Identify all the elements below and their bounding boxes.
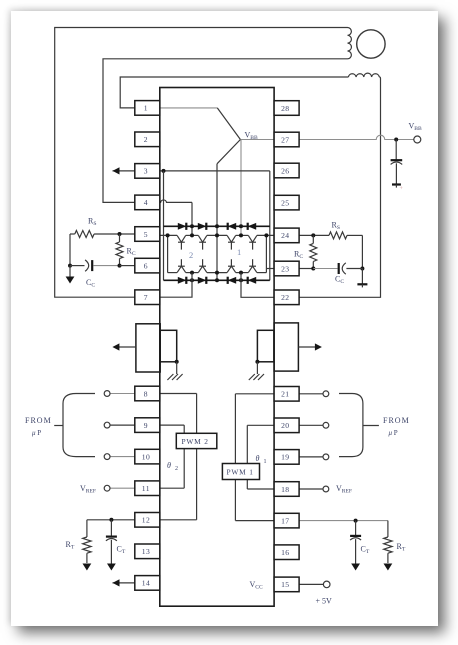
wire terminal pin8 — [110, 393, 135, 395]
svg-text:+ 5V: + 5V — [316, 597, 333, 606]
terminal circle pin18 — [323, 486, 329, 492]
inductor winding L2 (horizontal coil) — [348, 73, 379, 77]
svg-text:1: 1 — [237, 247, 241, 257]
Cc right straight plate — [338, 263, 340, 274]
resistor RT right — [387, 521, 389, 537]
wire pin12 internal — [160, 519, 197, 521]
resistor Rs right — [329, 232, 347, 239]
terminal circle pin20 — [323, 422, 329, 428]
svg-text:1: 1 — [264, 459, 267, 465]
wire diagonal VBB to center rail — [217, 140, 240, 164]
clamp diode row top — [164, 225, 270, 227]
svg-text:RC: RC — [127, 247, 136, 258]
wire terminal pin11 — [110, 487, 135, 489]
pin 27 — [274, 132, 299, 147]
pin 3 — [135, 164, 160, 179]
arrow down (left Cc ground) — [66, 277, 75, 284]
svg-text:2: 2 — [189, 250, 193, 260]
wire to ground hatch right — [256, 362, 258, 374]
ground bar right — [357, 283, 367, 285]
svg-text:13: 13 — [142, 547, 150, 556]
svg-text:9: 9 — [144, 421, 148, 430]
arrow out left — [116, 346, 136, 348]
diode D1 — [178, 223, 187, 230]
pin 22 — [274, 290, 299, 305]
ground bar under VBB cap — [392, 183, 401, 185]
wire pin27 external to VBB terminal with hop — [299, 135, 414, 139]
svg-text:12: 12 — [142, 516, 150, 525]
svg-text:3: 3 — [144, 167, 148, 176]
wire Rs right vertical — [361, 235, 363, 268]
wire terminal pin9 — [110, 424, 135, 426]
inductor winding L1 (vertical coil) — [348, 28, 352, 59]
pin 8 — [135, 386, 160, 401]
wire pin14 arrow — [113, 582, 135, 584]
svg-text:RS: RS — [332, 221, 340, 232]
wire pin17 external (gray) — [299, 520, 388, 522]
junction VBB cap — [394, 138, 398, 142]
bridge 1 right rail — [265, 235, 267, 272]
brace FROM uP right — [339, 394, 363, 457]
IC body outline — [160, 88, 274, 607]
svg-text:25: 25 — [281, 198, 289, 207]
junction CT right — [354, 519, 358, 523]
svg-text:11: 11 — [142, 484, 150, 493]
pin 23 — [274, 261, 299, 276]
wire pin15 to +5V — [299, 583, 323, 585]
svg-text:22: 22 — [281, 293, 289, 302]
pin 6 — [135, 258, 160, 273]
svg-text:CT: CT — [361, 545, 370, 556]
wire pin23 external — [299, 268, 313, 270]
svg-text:18: 18 — [281, 485, 289, 494]
wire terminal pin20 — [299, 424, 323, 426]
svg-text:μ P: μ P — [389, 429, 398, 437]
terminal circle pin11 — [104, 485, 110, 491]
diode D6 — [198, 277, 207, 284]
svg-text:VCC: VCC — [250, 580, 264, 591]
capacitor at VBB: wire top — [395, 140, 397, 161]
wire Rs left vertical — [69, 234, 71, 266]
resistor Rc left — [116, 242, 123, 259]
svg-text:15: 15 — [281, 580, 289, 589]
svg-text:19: 19 — [281, 453, 289, 462]
terminal circle pin8 — [104, 391, 110, 397]
svg-text:CC: CC — [335, 275, 344, 286]
capacitor Cc left: wire — [70, 265, 85, 267]
wire vertical (gray) down to bridge 1 upper node — [240, 140, 242, 236]
transistor lower cx=252.6 — [248, 266, 257, 272]
capacitor CT right — [355, 521, 357, 536]
wire to ground arrow — [69, 266, 71, 278]
junction dots on diode rows — [190, 224, 194, 228]
motor circle — [357, 30, 385, 58]
wire coil2 right end down to pin22 — [299, 77, 380, 297]
pin 24 — [274, 228, 299, 243]
capacitor CT left — [110, 520, 112, 537]
arrow pin3 — [113, 167, 120, 174]
resistor RT left — [86, 520, 88, 537]
wire Cc right — [346, 268, 362, 270]
wire pin27 VBB internal (gray) — [240, 139, 274, 141]
wire pin8 internal — [160, 393, 197, 395]
wire PWM1 inner vertical — [246, 425, 248, 489]
wire Cc to pin6 node (gray) — [94, 265, 120, 267]
svg-text:PWM 2: PWM 2 — [182, 437, 209, 446]
wire pin17 internal — [235, 520, 274, 522]
brace FROM uP left — [63, 394, 95, 457]
svg-text:6: 6 — [144, 261, 148, 270]
terminal circle pin19 — [323, 454, 329, 460]
pin 15 — [274, 577, 299, 592]
junction pin6 — [118, 264, 122, 268]
svg-text:CT: CT — [117, 545, 126, 556]
right sense block box A — [274, 323, 298, 371]
svg-text:VREF: VREF — [336, 484, 352, 495]
wire PWM1 outer vertical — [234, 394, 236, 521]
pin 20 — [274, 418, 299, 433]
left inner box B — [160, 330, 177, 362]
terminal +5V — [323, 581, 330, 588]
wire pin23 to Cc (gray) — [313, 268, 337, 270]
ground hatch right — [249, 374, 255, 380]
transistor lower cx=231.4 — [227, 266, 236, 272]
wire PWM2 inner vertical — [183, 425, 185, 488]
wire pin6 external — [120, 265, 135, 267]
pin 26 — [274, 163, 299, 178]
svg-text:17: 17 — [281, 516, 289, 525]
resistor Rc right — [310, 243, 317, 261]
bridge lower rail segments — [168, 272, 178, 274]
pin 17 — [274, 513, 299, 528]
svg-text:VBB: VBB — [245, 131, 259, 142]
pin 28 — [274, 101, 299, 116]
wire pin7 outer loop left — [55, 28, 348, 298]
transistor lower cx=181.4 — [177, 266, 186, 272]
pin 9 — [135, 418, 160, 433]
bridge upper rail segments (pin5/pin24 row) — [160, 234, 177, 236]
svg-text:24: 24 — [281, 231, 289, 240]
junction Cc right — [360, 267, 364, 271]
diode D4 — [248, 223, 257, 230]
wire coil1 to pin4 loop — [103, 59, 348, 203]
pin 25 — [274, 195, 299, 210]
capacitor wire bottom — [395, 163, 397, 184]
svg-text:10: 10 — [142, 452, 150, 461]
diode D3 — [228, 223, 237, 230]
wire pin4 down to bridge 2 upper node — [191, 202, 193, 235]
diode D8 — [248, 277, 257, 284]
wire PWM2 outer vertical — [196, 394, 198, 520]
pin 12 — [135, 513, 160, 528]
wire pin3 arrow out — [113, 170, 135, 172]
terminal VBB — [414, 136, 421, 143]
svg-text:26: 26 — [281, 166, 289, 175]
resistor Rs left — [75, 231, 94, 238]
svg-text:RS: RS — [88, 217, 96, 228]
junction pin23 — [311, 267, 315, 271]
pin 5 — [135, 227, 160, 242]
diode D5 — [178, 277, 187, 284]
wire pin12 external — [87, 519, 135, 521]
wire pin11 internal — [160, 487, 184, 489]
wire pin3 internal top rail — [160, 170, 270, 172]
svg-text:VBB: VBB — [409, 122, 423, 133]
junction Cc left — [68, 264, 72, 268]
wire bridge1 bottom node to pin22 — [241, 273, 274, 298]
junction pin24/Rc — [311, 233, 315, 237]
transistor upper cx=202.6 — [198, 235, 207, 242]
pin 16 — [274, 545, 299, 560]
svg-text:21: 21 — [281, 390, 289, 399]
Cc right curved plate — [342, 263, 346, 274]
wire pin20 internal — [247, 424, 274, 426]
wire clamp right vertical — [269, 171, 271, 280]
svg-text:2: 2 — [144, 135, 148, 144]
Cc left curved plate — [85, 260, 89, 271]
wire center clamp rail vertical — [216, 164, 218, 280]
svg-text:20: 20 — [281, 421, 289, 430]
pin 2 — [135, 132, 160, 147]
svg-text:RT: RT — [397, 542, 406, 553]
wire bridge2 bottom node to pin7 — [160, 273, 192, 298]
pin 1 — [135, 101, 160, 116]
clamp diode row bottom — [164, 279, 270, 281]
svg-text:23: 23 — [281, 264, 289, 273]
pin 18 — [274, 482, 299, 497]
Cc left straight plate — [91, 260, 93, 271]
block PWM 1 — [222, 464, 259, 480]
transistor lower cx=202.6 — [198, 266, 207, 272]
wire pin23 internal — [266, 268, 274, 270]
diode D7 — [228, 277, 237, 284]
svg-text:2: 2 — [175, 466, 178, 472]
svg-text:FROM: FROM — [25, 416, 52, 425]
svg-text:θ: θ — [256, 454, 260, 463]
wire pin24 external — [299, 234, 329, 236]
wire pin4 internal with hop — [160, 200, 192, 202]
pin 11 — [135, 481, 160, 496]
wire to ground T — [361, 269, 363, 285]
svg-text:27: 27 — [281, 135, 289, 144]
svg-text:PWM 1: PWM 1 — [227, 468, 254, 477]
svg-text:RC: RC — [294, 250, 303, 261]
junction CT left — [109, 518, 113, 522]
junction dots lower rail — [190, 271, 194, 275]
pin 10 — [135, 449, 160, 464]
wire pin1 internal (gray) — [160, 107, 218, 109]
diode D2 — [198, 223, 207, 230]
terminal circle pin10 — [104, 454, 110, 460]
terminal circle pin9 — [104, 422, 110, 428]
pin 13 — [135, 544, 160, 559]
pin 4 — [135, 195, 160, 210]
svg-text:16: 16 — [281, 548, 289, 557]
pin 7 — [135, 290, 160, 305]
wire terminal pin10 — [110, 456, 135, 458]
svg-text:RT: RT — [66, 540, 75, 551]
arrow out right — [298, 346, 318, 348]
svg-text:8: 8 — [144, 389, 148, 398]
svg-text:4: 4 — [144, 198, 148, 207]
right inner box B — [257, 330, 274, 362]
bridge 2 left rail — [167, 235, 169, 272]
svg-text:μ P: μ P — [32, 429, 41, 437]
svg-text:28: 28 — [281, 104, 289, 113]
wire diagonal pin1 to bridge-1 top — [217, 108, 240, 140]
ground hatch left — [167, 374, 173, 380]
svg-text:7: 7 — [144, 293, 148, 302]
junction right box B — [255, 360, 259, 364]
svg-text:1: 1 — [144, 104, 148, 113]
wire pin9 internal — [160, 424, 184, 426]
junction pin3 — [162, 169, 166, 173]
block PWM 2 — [176, 433, 217, 448]
wire to ground hatch left — [176, 362, 178, 374]
transistor upper cx=252.6 — [248, 235, 257, 242]
wire pin5 external — [94, 233, 135, 235]
capacitor plate straight — [391, 159, 403, 161]
wire pin18 internal — [247, 488, 274, 490]
svg-text:FROM: FROM — [383, 416, 410, 425]
svg-text:14: 14 — [142, 579, 150, 588]
junction left box B — [175, 360, 179, 364]
transistor upper cx=231.4 — [227, 235, 236, 242]
left sense block box A — [136, 324, 160, 372]
transistor upper cx=181.4 — [177, 235, 186, 242]
wire terminal pin19 — [299, 456, 323, 458]
wire clamp left vertical — [163, 171, 165, 280]
capacitor plate curved — [391, 162, 403, 164]
junction dots upper rail — [166, 233, 170, 237]
wire pin1 loop up — [120, 77, 348, 108]
svg-text:+: + — [400, 186, 404, 192]
wire terminal pin21 — [299, 393, 323, 395]
svg-text:CC: CC — [86, 278, 95, 289]
junction pin5/Rc — [118, 232, 122, 236]
wire terminal pin18 — [299, 488, 323, 490]
pin 21 — [274, 387, 299, 402]
svg-text:θ: θ — [167, 461, 171, 470]
pin 14 — [135, 576, 160, 591]
svg-text:VREF: VREF — [80, 484, 96, 495]
wire pin21 internal — [235, 393, 274, 395]
terminal circle pin21 — [323, 391, 329, 397]
svg-text:5: 5 — [144, 230, 148, 239]
pin 19 — [274, 450, 299, 465]
